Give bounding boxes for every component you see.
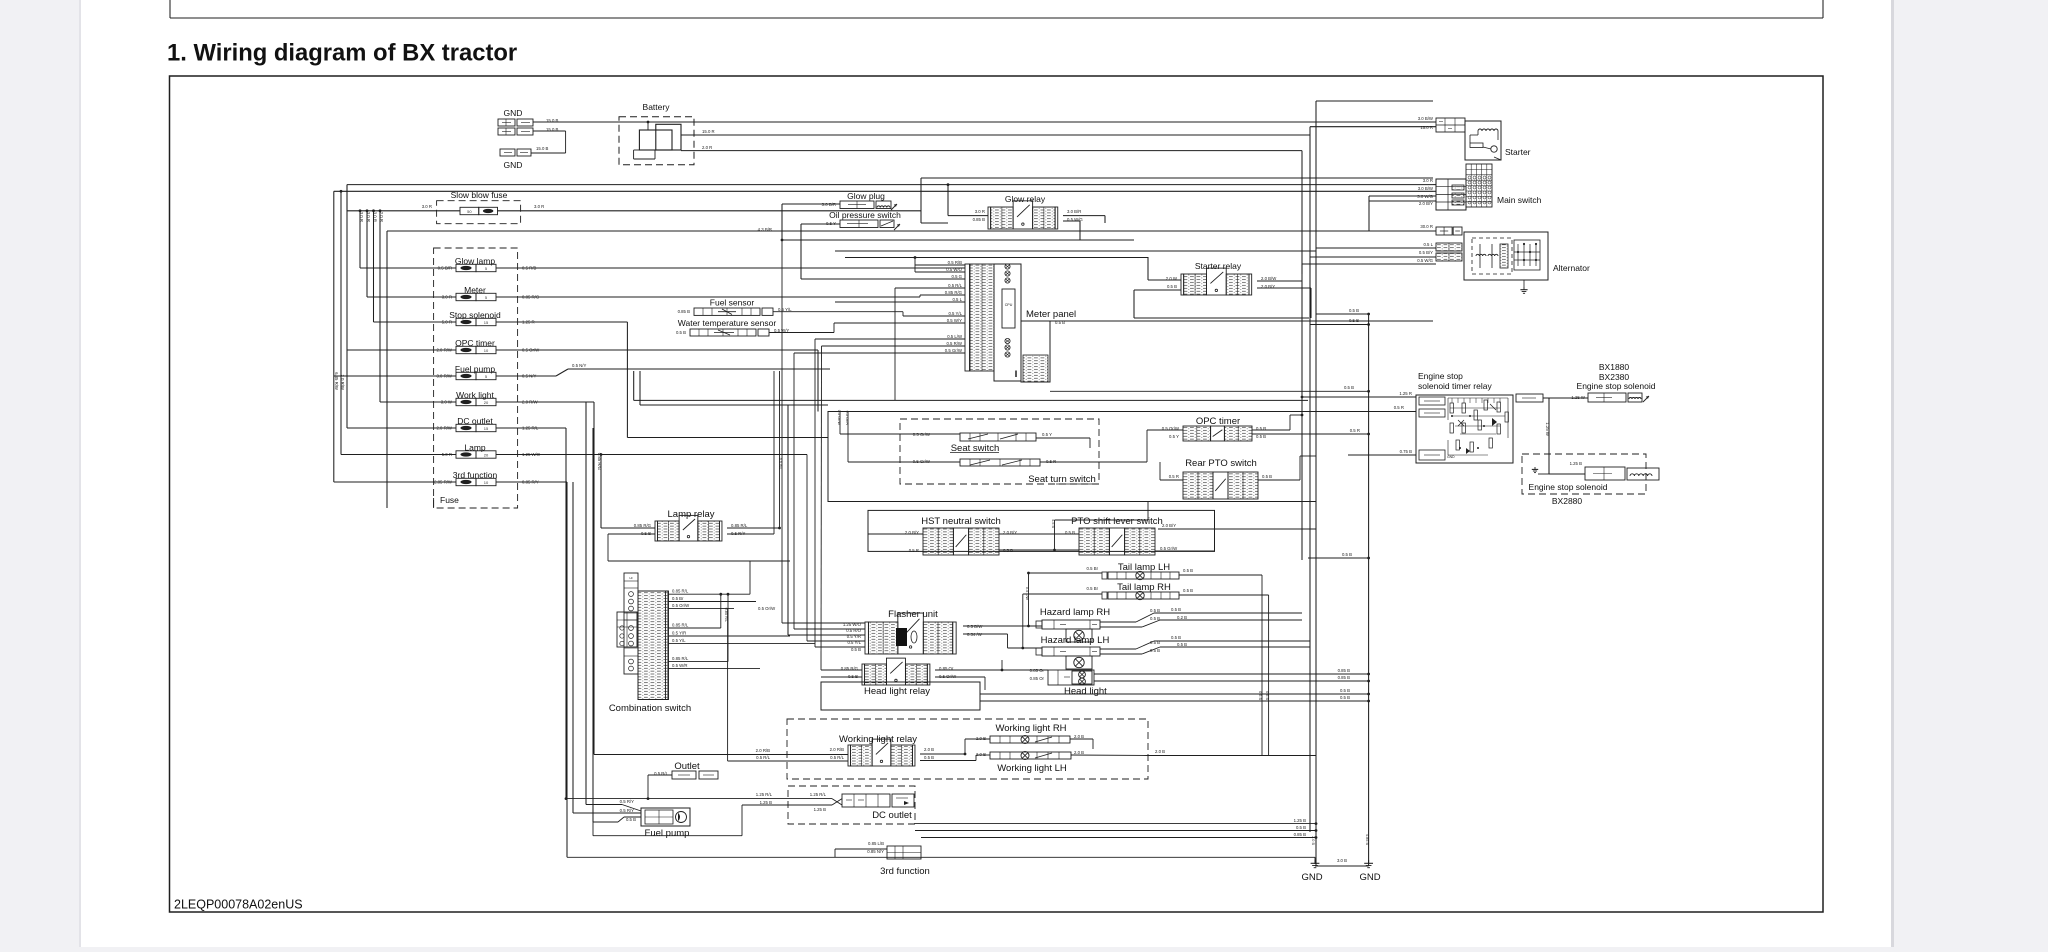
OPC timer switch [1162,416,1266,441]
svg-text:I: I [1015,369,1018,379]
svg-text:Seat turn switch: Seat turn switch [1028,474,1096,485]
wire left bus to fuel pump [573,402,593,822]
svg-text:0.5 R: 0.5 R [1350,428,1360,433]
svg-text:0.5 B/W: 0.5 B/W [967,624,983,629]
svg-text:Meter panel: Meter panel [1026,309,1076,320]
svg-text:Combination switch: Combination switch [609,703,691,714]
fuse Glow lamp [438,256,537,272]
svg-text:2.0 B: 2.0 B [976,752,986,757]
svg-text:0.5 R/L: 0.5 R/L [756,755,770,760]
svg-text:0.5 Or/W: 0.5 Or/W [939,674,957,679]
title [167,40,517,67]
svg-text:0.5 W/G: 0.5 W/G [1417,258,1433,263]
fuse Meter [442,285,540,301]
wires OPC timer2 [1147,414,1370,462]
svg-text:0.5 Gr/W: 0.5 Gr/W [913,459,931,464]
svg-text:2.0 B: 2.0 B [1155,749,1165,754]
svg-text:0.85 B: 0.85 B [678,309,691,314]
svg-text:0.5 R/Y: 0.5 R/Y [620,808,634,813]
wires flasher feeds [782,240,865,647]
svg-text:0.5 B: 0.5 B [626,817,636,822]
working light LH [976,750,1084,774]
svg-text:0.5 B: 0.5 B [1258,691,1262,700]
svg-text:4.5 B: 4.5 B [1051,519,1055,528]
wires rear PTO [1160,456,1316,480]
svg-text:0.5 B: 0.5 B [1344,385,1354,390]
svg-text:3.0 B/W: 3.0 B/W [1418,116,1434,121]
fuel pump bottom [620,799,690,839]
svg-text:1.25 B: 1.25 B [814,807,827,812]
svg-text:Fuel sensor: Fuel sensor [710,298,755,308]
svg-text:BX1880: BX1880 [1599,362,1630,372]
working lights dashed box [787,719,1148,779]
fuse box group [434,248,518,508]
combination switch [609,573,691,714]
connector GND upper [498,108,559,135]
wire oil pressure feed [758,224,840,279]
svg-text:0.5 L: 0.5 L [1423,242,1433,247]
svg-text:0.34 /W: 0.34 /W [967,632,983,637]
svg-text:3.0 W/G: 3.0 W/G [1417,194,1433,199]
svg-text:0.5 Y/L: 0.5 Y/L [948,311,962,316]
svg-text:3.0 B/W: 3.0 B/W [1418,186,1434,191]
battery [619,102,694,165]
svg-text:0.5 G: 0.5 G [951,274,962,279]
svg-text:Head light relay: Head light relay [864,686,930,697]
wire glow plug feed [782,204,840,240]
svg-text:2.0 B: 2.0 B [924,747,934,752]
svg-text:0.5 Or/W: 0.5 Or/W [837,410,841,426]
svg-text:GND: GND [504,108,523,118]
svg-text:GND: GND [504,160,523,170]
PTO shift lever switch [1065,516,1178,555]
svg-text:2.0 R/B: 2.0 R/B [830,747,844,752]
svg-text:2.0 B/Y: 2.0 B/Y [1162,523,1176,528]
svg-text:Fuse: Fuse [440,495,459,505]
svg-text:0.5 N/Y: 0.5 N/Y [572,363,586,368]
svg-text:3.0 R: 3.0 R [975,209,985,214]
wires head light area [821,346,1370,710]
svg-text:15.0 R: 15.0 R [702,129,715,134]
svg-text:0.5 Br: 0.5 Br [1087,566,1099,571]
svg-text:0.5 R: 0.5 R [1046,459,1056,464]
hazard lamp LH [1036,635,1160,669]
svg-text:GND: GND [1447,455,1455,459]
svg-text:1.25 B: 1.25 B [1570,461,1583,466]
svg-text:0.5 R/W: 0.5 R/W [946,341,962,346]
wire starter relay loop [1134,257,1311,318]
svg-text:0.5 Or/W: 0.5 Or/W [672,603,690,608]
fuse Work light [441,390,539,406]
svg-text:Outlet: Outlet [674,761,700,772]
wire main bus lower [334,191,1433,482]
svg-text:0.5 B: 0.5 B [1256,434,1266,439]
svg-text:Tail lamp RH: Tail lamp RH [1117,582,1171,593]
seat turn switch [913,459,1097,485]
svg-text:Working light LH: Working light LH [997,763,1067,774]
wires fuel pump [573,805,742,836]
svg-text:DC outlet: DC outlet [872,810,912,821]
svg-text:Oil pressure switch: Oil pressure switch [829,210,901,220]
diagram frame [170,76,1824,912]
wire head lamp bus 458 [0,0,1,1]
svg-text:2.0 B: 2.0 B [1311,836,1315,845]
svg-text:3.0 B/R: 3.0 B/R [1067,209,1081,214]
wire work light run [496,402,594,755]
svg-text:CPU: CPU [1005,303,1013,307]
fuse DC outlet [436,416,538,432]
svg-text:Hazard lamp RH: Hazard lamp RH [1040,607,1110,618]
svg-text:0.85 R/L: 0.85 R/L [731,523,748,528]
wires fuse left stubs [334,268,456,482]
svg-text:15: 15 [484,320,489,325]
wire lower loop bus [781,239,1134,242]
svg-text:3rd function: 3rd function [880,866,930,877]
svg-text:2.0 R: 2.0 R [702,145,712,150]
meter panel [965,264,1076,382]
wire water temp run [769,323,834,333]
svg-text:3.0 R: 3.0 R [422,204,432,209]
svg-text:0.5 R: 0.5 R [1169,474,1179,479]
wire fuel pump jog [496,363,830,376]
svg-text:0.5 Y: 0.5 Y [1042,432,1052,437]
starter relay [1166,261,1277,295]
wires alternator feeds [1302,231,1436,264]
svg-text:1. Wiring diagram of BX tracto: 1. Wiring diagram of BX tractor [167,40,517,67]
wire glow lamp to meter panel [496,267,965,269]
engine stop solenoid BX2880 [1522,454,1659,506]
wire main bus upper [347,185,1433,211]
wires 3rd function [567,849,1315,857]
svg-text:0.5 R/L: 0.5 R/L [778,458,782,470]
svg-text:3.0 R: 3.0 R [373,212,378,222]
svg-text:0.5 B: 0.5 B [676,330,686,335]
svg-text:Starter relay: Starter relay [1195,261,1242,271]
connector GND lower [500,146,549,170]
ground right [1359,834,1380,883]
lamp relay [634,509,748,541]
engine stop solenoid timer relay [1416,371,1513,463]
wire battery to starter relay [681,129,1310,274]
svg-text:2.0 B: 2.0 B [1074,750,1084,755]
wire stop solenoid run [496,322,828,438]
svg-text:0.5 B: 0.5 B [1150,608,1160,613]
hazard lamp RH [1036,607,1160,642]
wire 3rd function run [496,482,567,857]
seat switch [900,419,1099,484]
svg-text:0.5 B: 0.5 B [1342,552,1352,557]
wire bus 257 [845,257,1148,259]
svg-text:OPC timer: OPC timer [1196,416,1240,427]
wires combination switch outputs [669,561,816,761]
seat area outer box [634,371,1316,635]
ground left [1301,836,1322,883]
svg-text:0.5 B: 0.5 B [1296,825,1306,830]
svg-text:0.5 R/L: 0.5 R/L [948,283,962,288]
fuse 3rd function [434,470,539,486]
svg-text:0.85 R/L: 0.85 R/L [672,589,689,594]
svg-text:Tail lamp LH: Tail lamp LH [1118,562,1170,573]
svg-text:3.0 B: 3.0 B [1337,858,1347,863]
svg-text:0.85 L/B: 0.85 L/B [868,841,884,846]
svg-text:1.25 R/L: 1.25 R/L [756,792,773,797]
wires working lights [594,739,1316,761]
svg-text:20: 20 [484,453,489,458]
flasher unit [843,609,983,654]
svg-text:0.5 Br: 0.5 Br [1087,586,1099,591]
engine stop solenoid BX1880 [1571,362,1655,402]
svg-text:0.5 L/W: 0.5 L/W [947,334,963,339]
svg-text:0.5 B: 0.5 B [1340,695,1350,700]
svg-text:2LEQP00078A02enUS: 2LEQP00078A02enUS [174,897,303,911]
svg-text:Main switch: Main switch [1497,195,1542,205]
svg-text:2.0 B/W: 2.0 B/W [1261,276,1277,281]
svg-text:1.25 R/L: 1.25 R/L [810,792,827,797]
svg-text:Head light: Head light [1064,686,1107,697]
svg-text:0.5 Gr/W: 0.5 Gr/W [1160,546,1178,551]
svg-text:10: 10 [484,348,489,353]
svg-text:0.5 Or/R: 0.5 Or/R [845,411,849,426]
working light RH [976,723,1084,744]
alternator [1417,224,1590,293]
wire GND to battery and starter 15.0R [531,122,1436,153]
svg-text:3.0 R: 3.0 R [359,212,364,222]
wire OPC timer run [496,350,818,412]
svg-text:2.0 B/Y: 2.0 B/Y [1419,201,1433,206]
wire ground link [1315,858,1369,866]
svg-text:Alternator: Alternator [1553,263,1590,273]
svg-text:0.5 B: 0.5 B [641,531,651,536]
svg-text:GND: GND [1301,872,1322,883]
svg-text:0.85 Or: 0.85 Or [1030,676,1045,681]
wire DC outlet feed [565,792,842,812]
wires flasher outputs [963,572,1042,650]
svg-text:10: 10 [484,480,489,485]
svg-text:Engine stop solenoid: Engine stop solenoid [1529,482,1608,492]
svg-text:1.25 R: 1.25 R [1399,391,1412,396]
svg-text:0.75 B: 0.75 B [1400,449,1413,454]
svg-text:2.0 R/W: 2.0 R/W [340,374,345,390]
svg-text:0.2 B: 0.2 B [1177,615,1187,620]
svg-text:HST neutral switch: HST neutral switch [921,516,1001,527]
tail lamp RH [1023,582,1193,600]
svg-text:0.85 N/Y: 0.85 N/Y [867,849,884,854]
wire starter feeds [1310,127,1436,186]
svg-text:0.85 B: 0.85 B [973,217,986,222]
wires engine stop relay feeds [1050,385,1416,455]
svg-text:15: 15 [484,426,489,431]
svg-text:0.5 Br: 0.5 Br [672,596,684,601]
svg-text:0.5 Y/L: 0.5 Y/L [672,638,686,643]
svg-text:0.5 Or/W: 0.5 Or/W [758,606,776,611]
svg-text:0.5 R/Y: 0.5 R/Y [620,799,634,804]
svg-text:0.85 R/L: 0.85 R/L [672,656,689,661]
outlet [654,761,718,779]
wire center bus C [1316,101,1433,866]
fuse Lamp [442,443,541,459]
rear PTO switch [1169,458,1272,499]
fuse feed junctions [334,185,384,455]
svg-text:0.5 R: 0.5 R [1394,405,1404,410]
figure code label [174,897,303,911]
svg-text:GND: GND [1359,872,1380,883]
main switch [1436,164,1542,210]
svg-text:0.5 Y/R: 0.5 Y/R [672,631,686,636]
svg-text:0.5 B: 0.5 B [1349,308,1359,313]
svg-text:2.0 R: 2.0 R [379,212,384,222]
svg-text:Engine stop solenoid: Engine stop solenoid [1577,381,1656,391]
svg-text:0.5 B: 0.5 B [1171,607,1181,612]
working light relay [830,734,935,766]
wire timer relay to solenoid [1516,394,1588,474]
svg-text:0.85 R/G: 0.85 R/G [945,290,963,295]
svg-text:1.25 B: 1.25 B [760,800,773,805]
svg-text:0.5 W/O: 0.5 W/O [946,267,962,272]
HST area box [868,510,1215,551]
starter [1418,116,1531,160]
svg-text:Hazard lamp LH: Hazard lamp LH [1041,635,1110,646]
svg-text:0.5 B: 0.5 B [1167,284,1177,289]
svg-text:0.5 Gr/W: 0.5 Gr/W [945,348,963,353]
svg-text:0.5 B: 0.5 B [1183,568,1193,573]
HST neutral switch [905,516,1017,555]
svg-text:0.5 B: 0.5 B [1340,688,1350,693]
svg-text:solenoid timer relay: solenoid timer relay [1418,381,1492,391]
svg-text:0.5 B: 0.5 B [1183,588,1193,593]
previous figure frame bottom [170,0,1823,18]
wire meter panel output [1050,320,1433,322]
wire center bus B [1309,186,1311,832]
svg-text:20: 20 [484,400,489,405]
svg-text:Fuel pump: Fuel pump [645,828,690,839]
svg-text:0.85 B: 0.85 B [1338,675,1351,680]
svg-text:3.0 R: 3.0 R [366,212,371,222]
glow relay [973,194,1084,229]
svg-text:Working light RH: Working light RH [995,723,1066,734]
svg-text:2.0 R/B: 2.0 R/B [756,748,770,753]
wire lamp run [496,453,807,528]
svg-text:BX2880: BX2880 [1552,496,1583,506]
fuse OPC timer [436,338,540,354]
svg-text:0.5 B: 0.5 B [1349,318,1359,323]
wires bottom right bundle [914,818,1317,839]
wires seat feeds [837,410,1147,462]
wires tail lamps [1179,575,1269,756]
wires hazard lamps [1100,607,1310,654]
svg-text:0.5 B: 0.5 B [848,674,858,679]
svg-text:15.0 B: 15.0 B [536,146,549,151]
svg-text:1.25 W: 1.25 W [1545,422,1550,437]
svg-text:Engine stop: Engine stop [1418,371,1463,381]
svg-text:HI: HI [630,576,633,580]
head light [1030,668,1107,697]
svg-text:6.85 R/W: 6.85 R/W [334,372,339,391]
wire outlet feed [647,775,672,800]
svg-text:Battery: Battery [643,102,671,112]
svg-text:3.0 R: 3.0 R [1423,178,1433,183]
svg-text:0.85 B: 0.85 B [1294,832,1307,837]
svg-text:Water temperature sensor: Water temperature sensor [678,318,777,328]
svg-text:0.5 B: 0.5 B [1003,548,1013,553]
wire big box bus [387,231,1436,508]
svg-text:0.5 B: 0.5 B [851,647,861,652]
wire center bus A [1301,264,1303,560]
svg-text:4.85 B: 4.85 B [1365,834,1369,845]
svg-text:Flasher unit: Flasher unit [888,609,938,620]
DC outlet bottom [788,786,915,824]
glow plug [822,191,897,210]
wire fuel sensor run [773,312,903,316]
wire DC outlet run [496,428,566,799]
svg-text:50: 50 [467,209,472,214]
oil pressure switch [826,210,901,230]
wires HST PTO [868,502,1370,560]
svg-text:2.0 B: 2.0 B [1074,734,1084,739]
svg-text:0.5 L: 0.5 L [952,297,962,302]
wires main switch feeds [1369,178,1436,231]
fuel sensor [678,298,793,316]
svg-text:0.5 Y: 0.5 Y [1169,434,1179,439]
svg-text:0.5 B: 0.5 B [924,755,934,760]
svg-text:0.85 Or: 0.85 Or [1030,668,1045,673]
water temperature sensor [676,318,789,336]
svg-text:0.5 Or/W: 0.5 Or/W [913,432,931,437]
svg-text:0.5 B: 0.5 B [1262,474,1272,479]
svg-text:0.5 W/R: 0.5 W/R [672,663,688,668]
wire right bus D [1310,308,1370,866]
svg-text:3.0 R: 3.0 R [534,204,544,209]
svg-text:Lamp relay: Lamp relay [668,509,715,520]
svg-text:PTO shift lever switch: PTO shift lever switch [1071,516,1163,527]
svg-text:15.0 R: 15.0 R [1420,125,1433,130]
svg-text:0.85 R/L: 0.85 R/L [672,623,689,628]
wire bus 251 [835,250,1316,252]
svg-text:0.5 R/B: 0.5 R/B [948,260,962,265]
svg-text:0.5 W/Y: 0.5 W/Y [947,318,962,323]
svg-text:0.5 B: 0.5 B [1265,691,1269,700]
svg-text:0.5 B: 0.5 B [1171,635,1181,640]
svg-text:2.0 B: 2.0 B [976,736,986,741]
svg-text:0.5 B/Y: 0.5 B/Y [1419,250,1433,255]
svg-text:0.85 R/G: 0.85 R/G [634,523,652,528]
3rd function connector [867,841,930,877]
fuse Stop solenoid [442,310,535,326]
svg-text:1.25 B: 1.25 B [1294,818,1307,823]
head light relay [841,658,957,697]
svg-text:0.85 R/L: 0.85 R/L [724,608,728,622]
svg-text:0.85 R/G: 0.85 R/G [597,453,602,471]
svg-text:30.0 R: 30.0 R [1420,224,1433,229]
svg-text:0.5 B: 0.5 B [1177,642,1187,647]
svg-text:Slow blow fuse: Slow blow fuse [451,190,508,200]
fuse Fuel pump [436,364,536,380]
svg-text:0.85 B: 0.85 B [1338,668,1351,673]
tail lamp LH [1029,562,1194,580]
svg-text:Starter: Starter [1505,147,1531,157]
svg-text:0.5 R/L: 0.5 R/L [830,755,844,760]
svg-text:Glow plug: Glow plug [847,191,885,201]
wires meter panel inputs [496,256,965,400]
svg-text:Rear PTO switch: Rear PTO switch [1185,458,1257,469]
svg-text:0.5 R: 0.5 R [909,548,919,553]
slow blow fuse [347,190,921,224]
wire glow relay loop [921,178,1433,240]
svg-text:Glow relay: Glow relay [1005,194,1046,204]
svg-text:0.5 R/Y: 0.5 R/Y [731,531,745,536]
wires lamp relay [601,371,790,561]
